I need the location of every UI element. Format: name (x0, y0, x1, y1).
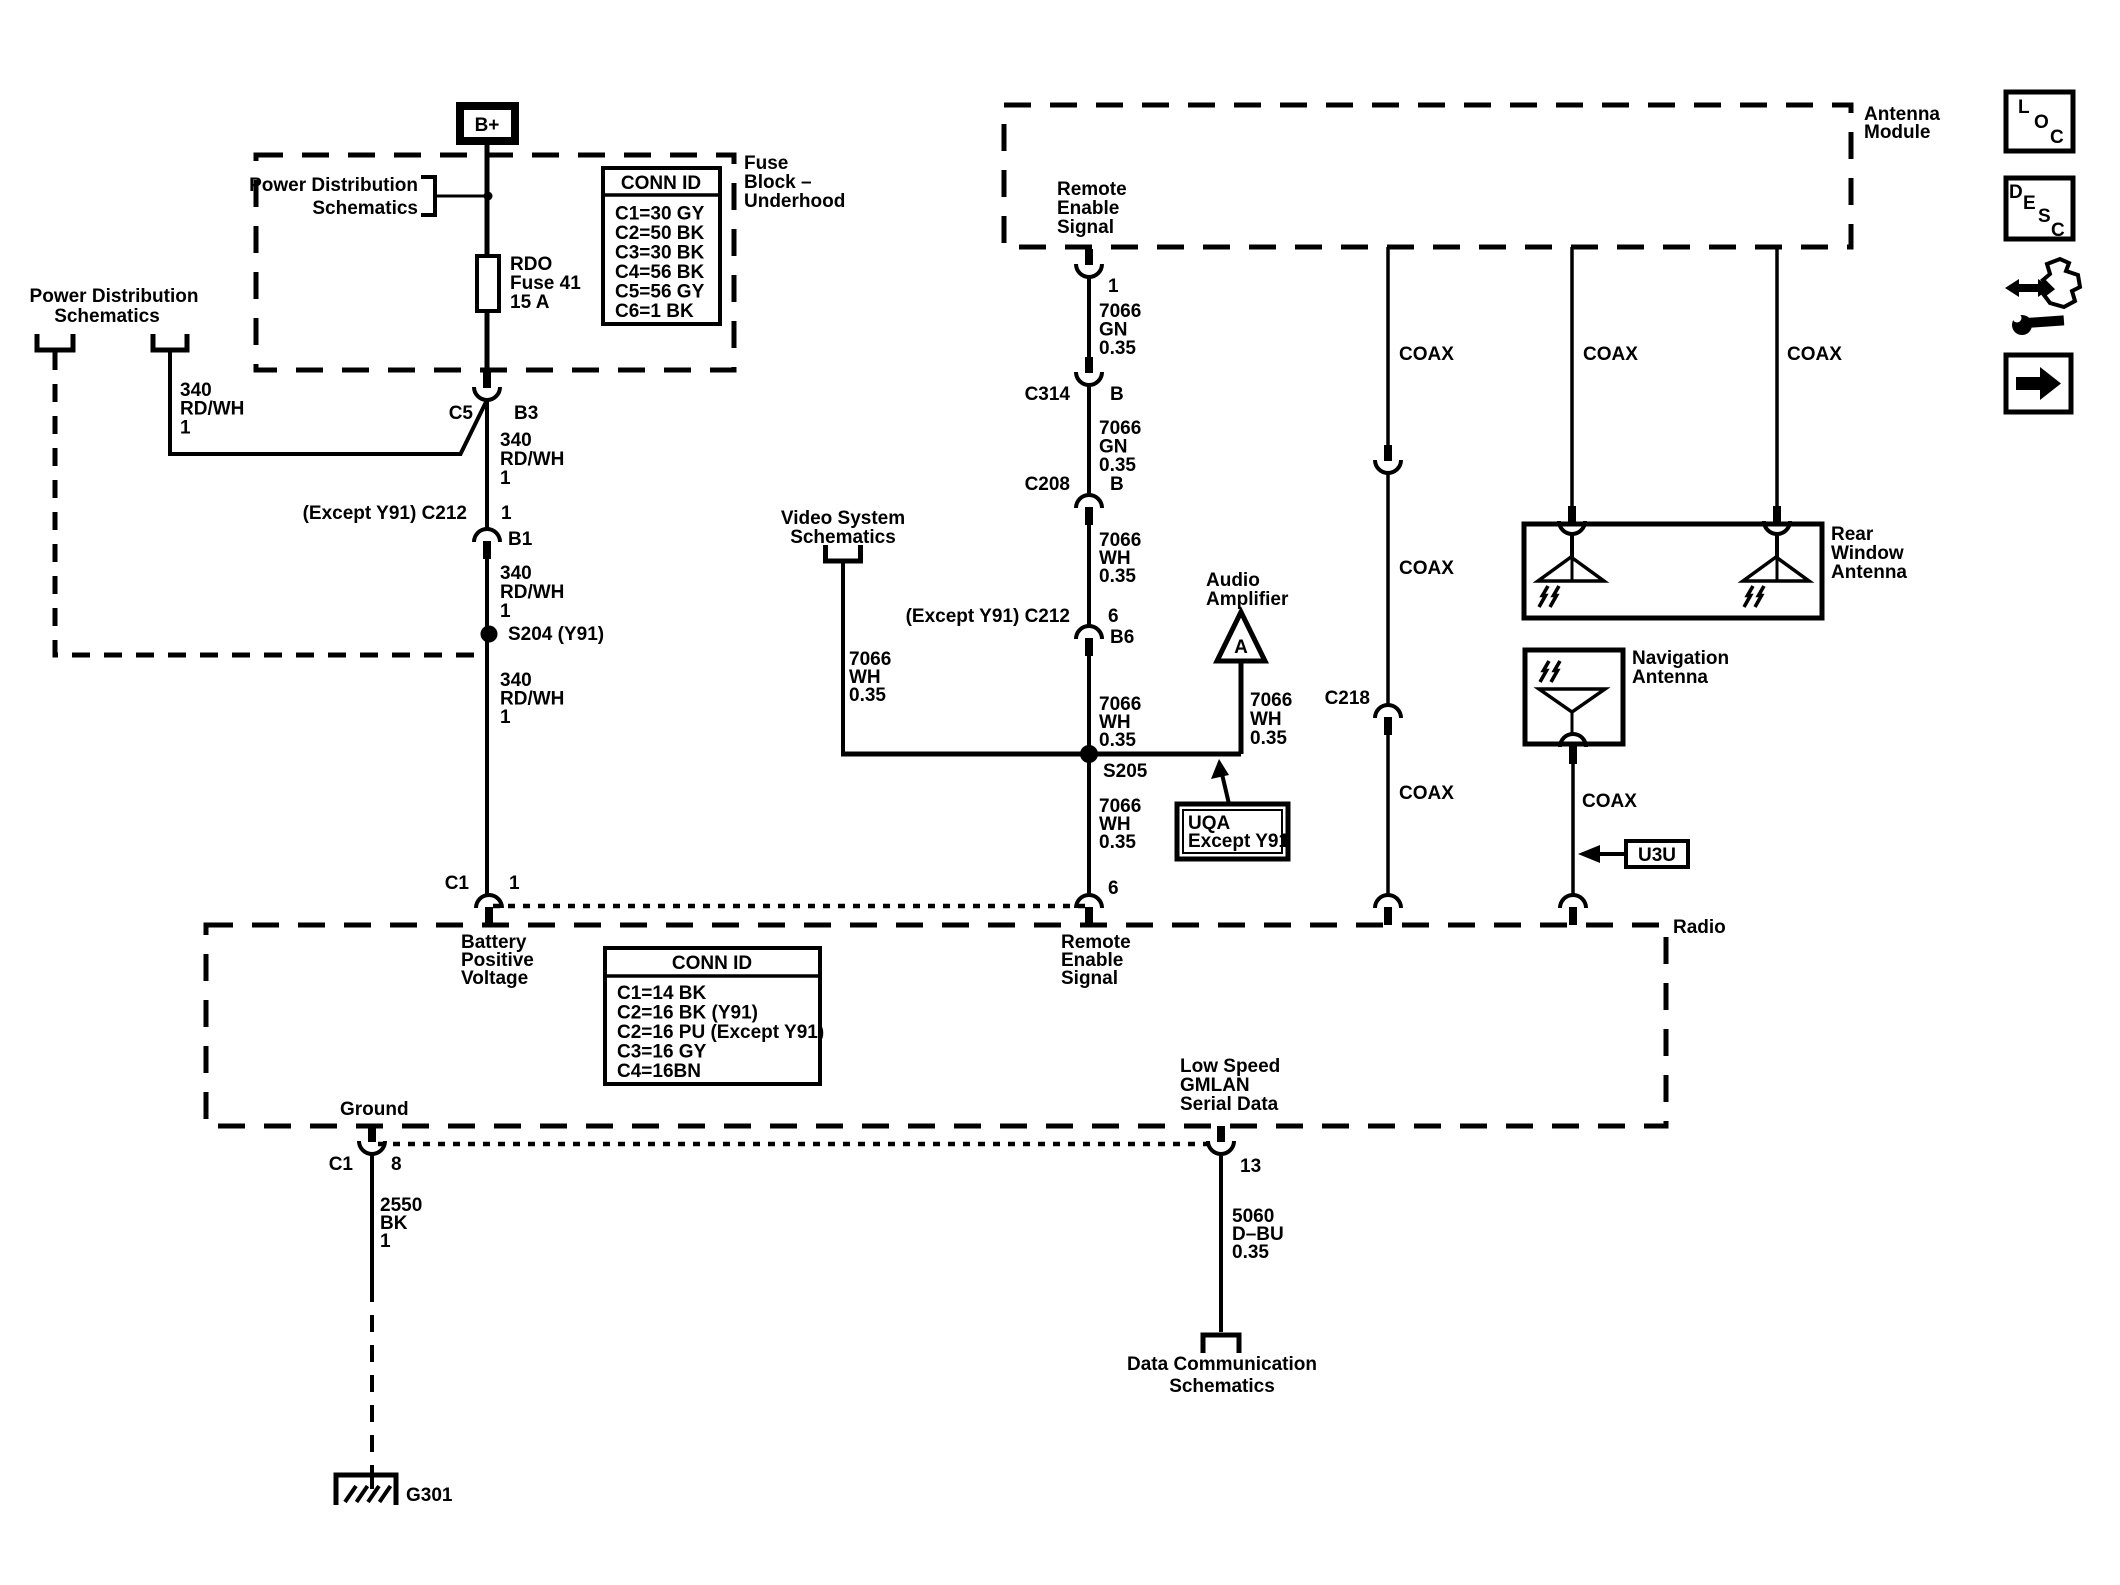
svg-text:RD/WH: RD/WH (500, 449, 564, 470)
svg-text:C5=56 GY: C5=56 GY (615, 282, 705, 303)
svg-text:COAX: COAX (1399, 783, 1454, 804)
svg-text:Antenna: Antenna (1831, 562, 1907, 583)
svg-text:Underhood: Underhood (744, 191, 845, 212)
svg-text:COAX: COAX (1582, 791, 1637, 812)
svg-text:CONN ID: CONN ID (672, 953, 752, 974)
svg-text:0.35: 0.35 (1099, 338, 1136, 359)
svg-text:Fuse 41: Fuse 41 (510, 273, 581, 294)
svg-text:Audio: Audio (1206, 570, 1260, 591)
svg-text:Voltage: Voltage (461, 968, 528, 989)
svg-text:S: S (2038, 206, 2051, 227)
svg-text:Schematics: Schematics (1169, 1376, 1275, 1397)
svg-text:E: E (2023, 193, 2036, 214)
svg-text:C314: C314 (1025, 384, 1071, 405)
svg-text:C1=14 BK: C1=14 BK (617, 983, 707, 1004)
svg-text:7066: 7066 (1250, 690, 1292, 711)
svg-text:Block –: Block – (744, 172, 812, 193)
svg-text:B1: B1 (508, 529, 533, 550)
svg-text:0.35: 0.35 (1250, 728, 1287, 749)
svg-text:B3: B3 (514, 403, 538, 424)
svg-text:C6=1 BK: C6=1 BK (615, 301, 694, 322)
svg-text:Schematics: Schematics (790, 527, 896, 548)
svg-text:Except Y91: Except Y91 (1188, 831, 1289, 852)
svg-text:1: 1 (1108, 276, 1119, 297)
svg-text:CONN ID: CONN ID (621, 173, 701, 194)
svg-text:340: 340 (500, 563, 532, 584)
svg-text:1: 1 (509, 873, 520, 894)
svg-text:C2=16 BK (Y91): C2=16 BK (Y91) (617, 1003, 758, 1024)
svg-text:RD/WH: RD/WH (500, 582, 564, 603)
svg-text:B: B (1110, 384, 1124, 405)
svg-text:0.35: 0.35 (1099, 832, 1136, 853)
svg-text:U3U: U3U (1638, 845, 1676, 866)
svg-text:6: 6 (1108, 606, 1119, 627)
svg-text:Low Speed: Low Speed (1180, 1056, 1280, 1077)
svg-text:340: 340 (500, 430, 532, 451)
svg-text:Navigation: Navigation (1632, 648, 1729, 669)
svg-text:(Except Y91) C212: (Except Y91) C212 (303, 503, 467, 524)
svg-text:S204 (Y91): S204 (Y91) (508, 624, 604, 645)
svg-text:A: A (1234, 637, 1248, 658)
svg-text:COAX: COAX (1399, 558, 1454, 579)
svg-text:O: O (2034, 112, 2049, 133)
svg-text:C4=16BN: C4=16BN (617, 1061, 701, 1082)
svg-text:B6: B6 (1110, 627, 1134, 648)
svg-text:B: B (1110, 474, 1124, 495)
svg-text:WH: WH (1250, 709, 1282, 730)
svg-text:Remote: Remote (1057, 179, 1127, 200)
svg-text:1: 1 (500, 468, 511, 489)
svg-text:Schematics: Schematics (312, 198, 418, 219)
svg-text:Fuse: Fuse (744, 153, 788, 174)
svg-text:1: 1 (500, 707, 511, 728)
svg-text:Power Distribution: Power Distribution (30, 286, 199, 307)
svg-text:15 A: 15 A (510, 292, 550, 313)
svg-text:1: 1 (380, 1231, 391, 1252)
svg-text:Ground: Ground (340, 1099, 409, 1120)
svg-text:1: 1 (180, 417, 191, 438)
svg-text:C5: C5 (449, 403, 474, 424)
svg-text:Module: Module (1864, 122, 1931, 143)
svg-text:S205: S205 (1103, 761, 1148, 782)
svg-text:1: 1 (500, 601, 511, 622)
svg-text:Rear: Rear (1831, 524, 1874, 545)
svg-text:C218: C218 (1325, 688, 1370, 709)
svg-text:C3=16 GY: C3=16 GY (617, 1042, 707, 1063)
svg-text:(Except Y91) C212: (Except Y91) C212 (906, 606, 1070, 627)
svg-text:C2=16 PU (Except Y91): C2=16 PU (Except Y91) (617, 1022, 824, 1043)
svg-text:B+: B+ (475, 115, 500, 136)
svg-text:Window: Window (1831, 543, 1904, 564)
svg-text:C208: C208 (1025, 474, 1070, 495)
svg-text:C: C (2051, 220, 2065, 241)
svg-text:C: C (2050, 127, 2064, 148)
svg-text:COAX: COAX (1583, 344, 1638, 365)
svg-text:0.35: 0.35 (1232, 1242, 1269, 1263)
svg-text:COAX: COAX (1399, 344, 1454, 365)
svg-text:Schematics: Schematics (54, 306, 160, 327)
svg-text:13: 13 (1240, 1156, 1261, 1177)
svg-text:Enable: Enable (1057, 198, 1119, 219)
svg-text:C1: C1 (329, 1154, 354, 1175)
svg-text:Radio: Radio (1673, 917, 1726, 938)
svg-text:C2=50 BK: C2=50 BK (615, 223, 705, 244)
svg-text:C4=56 BK: C4=56 BK (615, 262, 705, 283)
svg-text:C1: C1 (445, 873, 470, 894)
svg-text:Antenna: Antenna (1632, 667, 1708, 688)
svg-text:0.35: 0.35 (1099, 566, 1136, 587)
svg-text:8: 8 (391, 1154, 402, 1175)
svg-text:Amplifier: Amplifier (1206, 589, 1289, 610)
svg-text:RDO: RDO (510, 254, 552, 275)
svg-text:L: L (2018, 97, 2030, 118)
svg-text:G301: G301 (406, 1485, 453, 1506)
svg-text:0.35: 0.35 (1099, 730, 1136, 751)
svg-text:0.35: 0.35 (849, 685, 886, 706)
svg-text:6: 6 (1108, 878, 1119, 899)
svg-text:GMLAN: GMLAN (1180, 1075, 1250, 1096)
svg-text:COAX: COAX (1787, 344, 1842, 365)
svg-text:C1=30 GY: C1=30 GY (615, 204, 705, 225)
svg-text:Video System: Video System (781, 508, 905, 529)
svg-text:Power Distribution: Power Distribution (249, 175, 418, 196)
svg-text:0.35: 0.35 (1099, 455, 1136, 476)
svg-text:D: D (2009, 182, 2023, 203)
svg-text:1: 1 (501, 503, 512, 524)
svg-text:C3=30 BK: C3=30 BK (615, 243, 705, 264)
svg-text:Signal: Signal (1057, 217, 1114, 238)
svg-text:Data Communication: Data Communication (1127, 1354, 1317, 1375)
svg-text:Signal: Signal (1061, 968, 1118, 989)
svg-text:Serial Data: Serial Data (1180, 1094, 1279, 1115)
